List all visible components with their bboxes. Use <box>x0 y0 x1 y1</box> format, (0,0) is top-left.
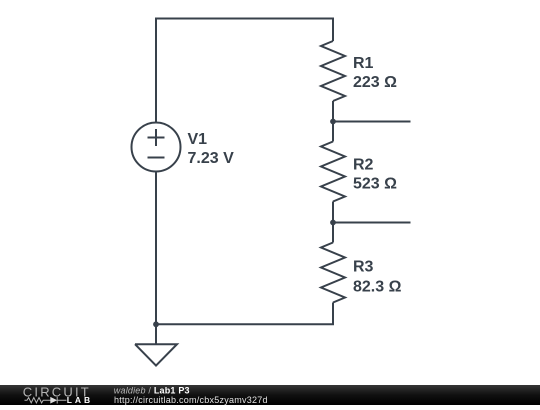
V1 plus sign <box>148 129 165 146</box>
node A junction dot <box>330 119 336 125</box>
wire: R1 bottom lead to node A <box>332 101 334 142</box>
resistor R3 zigzag <box>321 243 345 303</box>
svg-text:R3: R3 <box>353 258 374 275</box>
svg-text:82.3 Ω: 82.3 Ω <box>353 278 402 295</box>
svg-text:R1: R1 <box>353 55 374 72</box>
wire: V1 bottom down to bottom node <box>155 173 157 325</box>
CircuitLab logo diode triangle <box>50 396 57 403</box>
resistor R1 zigzag <box>321 41 345 101</box>
svg-text:http://circuitlab.com/cbx5zyam: http://circuitlab.com/cbx5zyamv327d <box>114 395 268 405</box>
svg-text:V1: V1 <box>188 131 208 148</box>
svg-text:waldieb / Lab1 P3: waldieb / Lab1 P3 <box>114 385 190 395</box>
svg-text:223 Ω: 223 Ω <box>353 74 397 91</box>
resistor R2 zigzag <box>321 142 345 202</box>
wire: top run from V1 top to R1 top <box>156 19 333 123</box>
svg-text:7.23 V: 7.23 V <box>188 150 235 167</box>
svg-text:LAB: LAB <box>67 394 93 404</box>
wire: bottom run from ground node to R3 bottom <box>156 303 333 325</box>
ground symbol <box>135 324 177 365</box>
voltage source V1 body <box>132 123 181 172</box>
CircuitLab logo resistor-diode glyph <box>25 396 67 403</box>
svg-text:523 Ω: 523 Ω <box>353 176 397 193</box>
svg-text:R2: R2 <box>353 156 374 173</box>
node B junction dot <box>330 220 336 226</box>
wire: R2 bottom lead to node B <box>332 202 334 243</box>
wire: tap from node B to right <box>333 222 411 224</box>
footer bar <box>0 385 540 406</box>
ground node junction dot <box>153 321 159 327</box>
wire: tap from node A to right <box>333 121 411 123</box>
V1 minus sign <box>148 157 165 159</box>
